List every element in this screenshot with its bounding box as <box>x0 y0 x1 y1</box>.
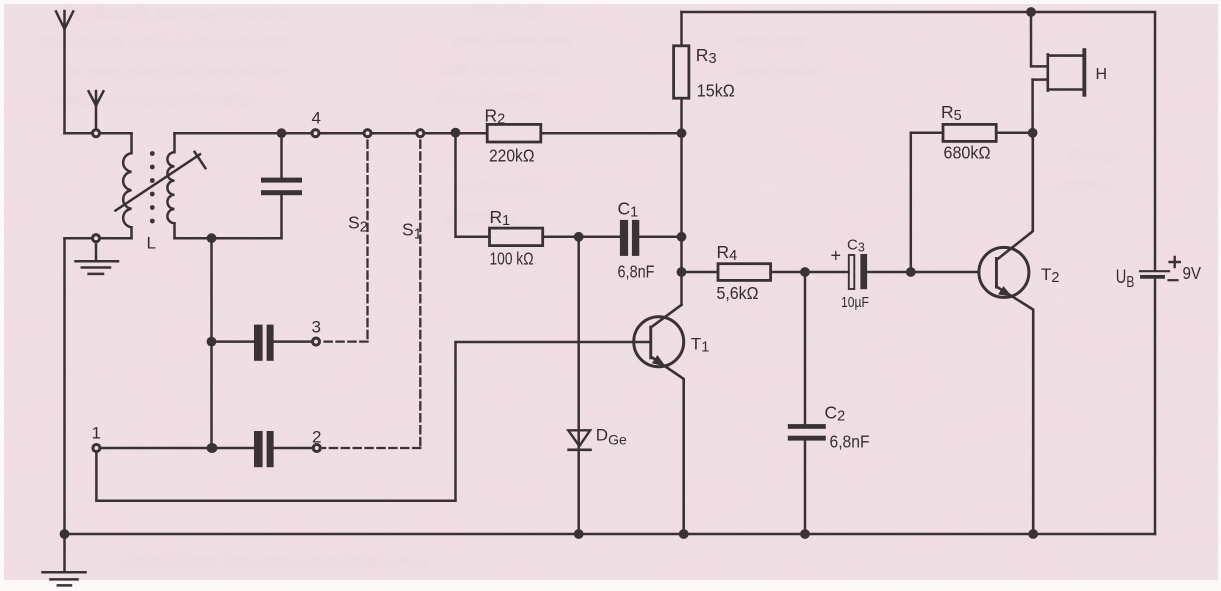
svg-text:sdnet ielretim wne: sdnet ielretim wne <box>452 32 573 49</box>
svg-text:lentse h: lentse h <box>1062 177 1115 194</box>
svg-text:rahne msnet: rahne msnet <box>736 63 820 80</box>
svg-text:9V: 9V <box>1183 263 1202 283</box>
svg-text:nlese hcelt: nlese hcelt <box>733 33 806 50</box>
svg-text:nekr ahnlaw tesdn: nekr ahnlaw tesdn <box>440 61 562 78</box>
svg-text:680kΩ: 680kΩ <box>944 143 991 163</box>
svg-text:mlesnet ahdne tselw reibn ahls: mlesnet ahdne tselw reibn ahlste nledni … <box>120 554 429 571</box>
svg-text:menets rahne: menets rahne <box>452 179 544 196</box>
svg-text:L: L <box>147 234 156 253</box>
svg-text:3: 3 <box>312 318 321 337</box>
svg-text:220kΩ: 220kΩ <box>489 145 535 165</box>
svg-text:ad snegi dnats aselt iebre hcs: ad snegi dnats aselt iebre hcsruh <box>66 63 286 80</box>
svg-text:dnu redei otk nelha snete ewts: dnu redei otk nelha snete ewtsne reh <box>40 34 286 51</box>
svg-text:iilm sdna terlik ahnlit dsemi: iilm sdna terlik ahnlit dsemi rehtona <box>56 5 291 22</box>
svg-text:5,6kΩ: 5,6kΩ <box>717 283 759 303</box>
svg-text:mse tse: mse tse <box>1068 147 1121 164</box>
svg-text:2: 2 <box>312 428 321 447</box>
svg-text:H: H <box>1096 66 1108 83</box>
svg-text:100 kΩ: 100 kΩ <box>490 249 534 269</box>
svg-text:4: 4 <box>312 109 321 128</box>
svg-text:ielkr nered: ielkr nered <box>470 3 540 20</box>
svg-text:+: + <box>831 246 842 266</box>
svg-text:mehta lsnel etsre wiednu rehci: mehta lsnel etsre wiednu rehcil <box>48 92 254 109</box>
svg-text:tlahr eibal smrut: tlahr eibal smrut <box>436 90 544 107</box>
svg-text:15kΩ: 15kΩ <box>697 81 735 101</box>
svg-text:1: 1 <box>92 424 101 443</box>
svg-text:6,8nF: 6,8nF <box>618 262 655 282</box>
svg-text:10µF: 10µF <box>841 295 869 311</box>
svg-text:6,8nF: 6,8nF <box>830 432 870 452</box>
